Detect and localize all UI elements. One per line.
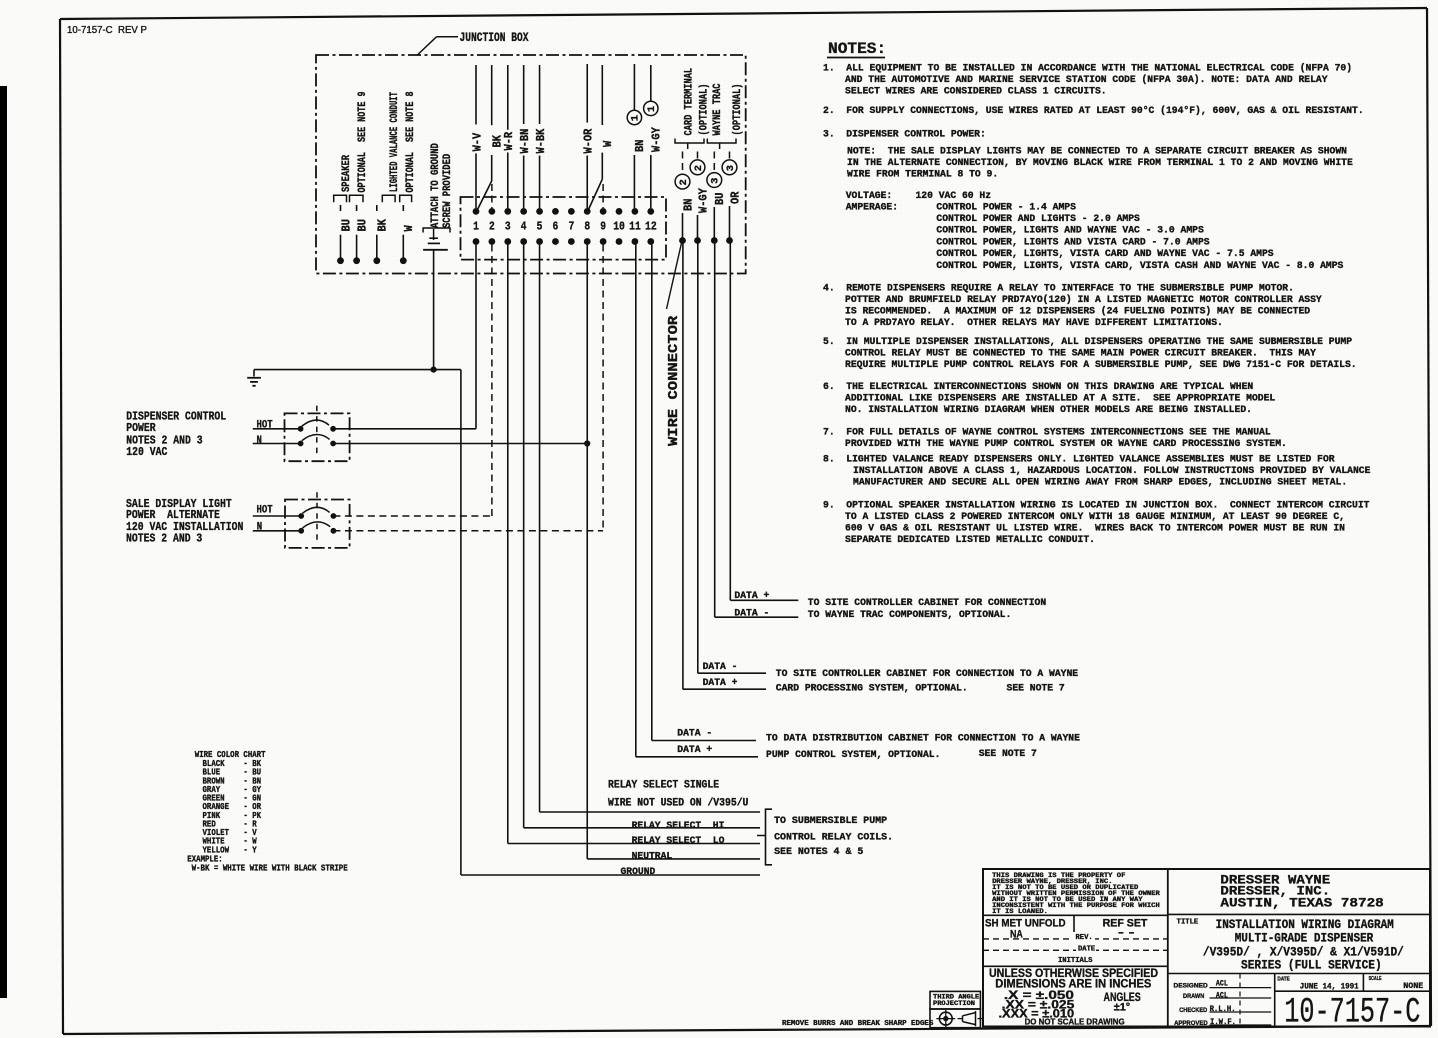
svg-text:WIRE NOT USED ON /V395/U: WIRE NOT USED ON /V395/U — [608, 798, 748, 810]
valance label OPTIONAL SEE NOTE 8 (vertical) — [405, 91, 417, 192]
terminal 11 top dot — [632, 208, 639, 215]
wire terminal 11 to pump-control DATA+ — [636, 245, 758, 757]
svg-text:DATE: DATE — [1078, 945, 1095, 953]
terminal 9 bottom dot — [600, 238, 607, 245]
svg-text:BN: BN — [633, 140, 647, 152]
text to data distribution cabinet — [766, 733, 1080, 760]
svg-text:TITLE: TITLE — [1177, 919, 1199, 927]
label RELAY SELECT LO — [632, 836, 725, 847]
svg-text:DATA +: DATA + — [703, 677, 738, 688]
svg-text:PUMP CONTROL SYSTEM, OPTIONAL.: PUMP CONTROL SYSTEM, OPTIONAL. — [766, 749, 940, 760]
circuit breaker CB1 dispenser control — [253, 406, 350, 462]
label (OPTIONAL) card terminal (vertical) — [699, 84, 711, 136]
junction dot neutral/breaker-N — [584, 440, 590, 446]
svg-text:SELECT WIRES ARE CONSIDERED CL: SELECT WIRES ARE CONSIDERED CLASS 1 CIRC… — [845, 85, 1107, 96]
svg-text:DATE: DATE — [1277, 977, 1290, 983]
svg-text:CHECKED: CHECKED — [1179, 1007, 1207, 1014]
svg-text:APPROVED: APPROVED — [1174, 1020, 1208, 1027]
svg-text:LIGHTED VALANCE CONDUIT: LIGHTED VALANCE CONDUIT — [389, 92, 401, 192]
svg-text:ATTACH TO GROUND: ATTACH TO GROUND — [430, 143, 442, 228]
svg-text:W: W — [402, 225, 416, 232]
dashed alternate wire terminal 9 to sale-display N — [333, 245, 603, 531]
svg-text:OPTIONAL SEE NOTE 9: OPTIONAL SEE NOTE 9 — [357, 91, 369, 192]
wire W-BK to terminal 5 — [534, 65, 548, 208]
ground screw symbol in junction box — [423, 228, 450, 250]
label DATA+ wayne trac — [734, 590, 769, 601]
svg-text:BU: BU — [713, 193, 727, 205]
wire W-GY pair-2 card terminal — [690, 152, 710, 244]
svg-text:2. FOR SUPPLY CONNECTIONS, US: 2. FOR SUPPLY CONNECTIONS, USE WIRES RAT… — [823, 105, 1364, 116]
terminal 1 top dot — [473, 208, 480, 215]
wire color chart — [187, 750, 348, 874]
svg-text:600 V GAS & OIL RESISTANT UL L: 600 V GAS & OIL RESISTANT UL LISTED WIRE… — [845, 522, 1345, 533]
terminal 3 top dot — [504, 208, 511, 215]
svg-text:±1°: ±1° — [1114, 1001, 1131, 1013]
svg-text:OPTIONAL SEE NOTE 8: OPTIONAL SEE NOTE 8 — [405, 91, 417, 192]
wire W-GY pair-2 to card DATA- — [698, 244, 766, 674]
svg-text:BK: BK — [376, 218, 390, 231]
lighted valance wire BK stub — [373, 195, 395, 264]
svg-text:JUNCTION BOX: JUNCTION BOX — [460, 30, 529, 45]
svg-text:ACL: ACL — [1216, 991, 1228, 1000]
ground wire down to GROUND line — [461, 370, 760, 875]
label DATA+ pump control — [677, 744, 712, 755]
terminal 10 bottom dot — [616, 238, 623, 245]
wire BU pair-3 to trac DATA- — [715, 244, 799, 618]
svg-text:INSTALLATION ABOVE A CLASS 1,: INSTALLATION ABOVE A CLASS 1, HAZARDOUS … — [853, 465, 1371, 476]
svg-text:(OPTIONAL): (OPTIONAL) — [732, 84, 744, 136]
svg-text:DRAWN: DRAWN — [1183, 993, 1205, 1000]
svg-text:AMPERAGE:: AMPERAGE: — [846, 202, 898, 213]
terminal 2 number label — [489, 220, 495, 234]
svg-text:HOT: HOT — [257, 420, 274, 432]
terminal 5 bottom dot — [536, 238, 543, 245]
svg-text:CONTROL POWER, LIGHTS, VISTA C: CONTROL POWER, LIGHTS, VISTA CARD, VISTA… — [936, 260, 1343, 271]
svg-text:TO WAYNE TRAC COMPONENTS, OPTI: TO WAYNE TRAC COMPONENTS, OPTIONAL. — [808, 609, 1011, 620]
svg-text:IS RECOMMENDED. A MAXIMUM OF: IS RECOMMENDED. A MAXIMUM OF 12 DISPENSE… — [845, 306, 1310, 317]
svg-text:8: 8 — [584, 220, 590, 234]
terminal 6 bottom dot — [552, 238, 559, 245]
svg-text:MULTI-GRADE DISPENSER: MULTI-GRADE DISPENSER — [1235, 932, 1374, 946]
svg-text:NONE: NONE — [1403, 982, 1423, 991]
svg-text:4. REMOTE DISPENSERS REQUIRE: 4. REMOTE DISPENSERS REQUIRE A RELAY TO … — [823, 283, 1294, 294]
svg-text:10-7157-C REV P: 10-7157-C REV P — [67, 24, 147, 36]
label DATA+ card system — [703, 677, 738, 688]
svg-text:NO. INSTALLATION WIRING DIAGRA: NO. INSTALLATION WIRING DIAGRAM WHEN OTH… — [845, 404, 1252, 415]
proprietary statement box — [983, 872, 1168, 915]
svg-text:2: 2 — [489, 220, 495, 234]
svg-text:TO SUBMERSIBLE PUMP: TO SUBMERSIBLE PUMP — [774, 816, 887, 827]
wire BN pair-1 to terminal 11 — [627, 64, 647, 208]
label ATTACH TO GROUND SCREW PROVIDED (vertical) — [430, 143, 454, 228]
svg-text:120 VAC: 120 VAC — [126, 445, 168, 459]
svg-text:INSTALLATION WIRING DIAGRAM: INSTALLATION WIRING DIAGRAM — [1216, 918, 1394, 932]
svg-text:CONTROL POWER AND LIGHTS - 2.0: CONTROL POWER AND LIGHTS - 2.0 AMPS — [936, 213, 1140, 224]
svg-text:DO NOT SCALE DRAWING: DO NOT SCALE DRAWING — [1025, 1017, 1125, 1027]
wire W-V to terminal 1 — [470, 65, 484, 208]
svg-text:IT IS LOANED.: IT IS LOANED. — [992, 908, 1048, 915]
svg-text:NEUTRAL: NEUTRAL — [632, 852, 673, 863]
terminal 6 number label — [553, 220, 559, 234]
terminal 1 number label — [473, 220, 479, 234]
valance label LIGHTED VALANCE CONDUIT (vertical) — [389, 92, 401, 192]
label (OPTIONAL) wayne trac (vertical) — [732, 84, 744, 136]
wire terminal 3 to RELAY SELECT LO — [508, 245, 760, 844]
alternate dashed wire BK to terminal 2 — [491, 184, 493, 208]
svg-text:SEE NOTE 7: SEE NOTE 7 — [979, 748, 1037, 759]
svg-text:OR: OR — [728, 191, 742, 204]
alternate dashed wire W to terminal 9 — [602, 184, 604, 208]
svg-text:BU: BU — [339, 219, 353, 231]
svg-text:W-BN: W-BN — [518, 129, 532, 154]
terminal 8 bottom dot — [584, 238, 591, 245]
svg-text:TO SITE CONTROLLER CABINET FOR: TO SITE CONTROLLER CABINET FOR CONNECTIO… — [808, 597, 1047, 608]
svg-text:- Y: - Y — [243, 845, 257, 855]
svg-text:TO A PRD7AYO RELAY. OTHER REL: TO A PRD7AYO RELAY. OTHER RELAYS MAY HAV… — [845, 317, 1223, 328]
svg-text:PROVIDED WITH THE WAYNE PUMP C: PROVIDED WITH THE WAYNE PUMP CONTROL SYS… — [845, 438, 1287, 449]
wire W-GY pair-1 to terminal 12 — [644, 65, 664, 208]
svg-text:BN: BN — [681, 199, 695, 211]
label WAYNE TRAC (vertical) — [712, 83, 724, 135]
terminal 2 top dot — [488, 208, 495, 215]
svg-text:N: N — [257, 522, 262, 534]
svg-text:INITIALS: INITIALS — [1058, 957, 1092, 965]
label RELAY SELECT HI — [632, 821, 725, 832]
svg-text:1. ALL EQUIPMENT TO BE INSTAL: 1. ALL EQUIPMENT TO BE INSTALLED IN ACCO… — [823, 62, 1352, 73]
terminal 3 bottom dot — [504, 238, 511, 245]
svg-text:WIRE CONNECTOR: WIRE CONNECTOR — [667, 315, 682, 446]
svg-text:IN THE ALTERNATE CONNECTION, B: IN THE ALTERNATE CONNECTION, BY MOVING B… — [847, 157, 1353, 168]
svg-text:10: 10 — [613, 220, 625, 234]
terminal 7 bottom dot — [568, 238, 575, 245]
terminal 5 top dot — [536, 208, 543, 215]
drawing number 10-7157-C — [1284, 993, 1420, 1033]
svg-text:SPEAKER: SPEAKER — [341, 155, 353, 192]
terminal 4 number label — [521, 220, 527, 234]
svg-text:REQUIRE MULTIPLE PUMP CONTROL: REQUIRE MULTIPLE PUMP CONTROL RELAYS FOR… — [845, 359, 1357, 370]
svg-text:GROUND: GROUND — [621, 867, 656, 878]
svg-text:CONTROL POWER, LIGHTS AND VIST: CONTROL POWER, LIGHTS AND VISTA CARD - 7… — [936, 237, 1209, 248]
wire W-OR to terminal 8 — [582, 64, 596, 208]
svg-text:SEE NOTES 4 & 5: SEE NOTES 4 & 5 — [774, 847, 863, 858]
text to submersible pump control relay coils — [774, 816, 893, 858]
svg-text:W-R: W-R — [502, 131, 516, 150]
svg-text:/V395D/ , X/V395D/ & X1/V591D/: /V395D/ , X/V395D/ & X1/V591D/ — [1203, 945, 1404, 959]
label DATA- card system — [703, 661, 738, 672]
company name block — [1220, 873, 1383, 911]
terminal 4 top dot — [520, 208, 527, 215]
svg-text:- -: - - — [1118, 926, 1135, 938]
remove burrs note — [782, 1020, 934, 1028]
svg-text:DATA -: DATA - — [703, 661, 738, 672]
card terminal bracket — [675, 139, 704, 150]
earth junction dot — [431, 367, 437, 373]
svg-text:SEE NOTE 7: SEE NOTE 7 — [1007, 683, 1065, 694]
label WIRE CONNECTOR (vertical) — [667, 315, 682, 446]
svg-text:4: 4 — [521, 220, 527, 234]
speaker label OPTIONAL SEE NOTE 9 (vertical) — [357, 91, 369, 192]
wire from terminal 1 to breaker HOT — [333, 245, 476, 429]
terminal 11 bottom dot — [632, 238, 639, 245]
svg-text:MANUFACTURER AND SECURE ALL OP: MANUFACTURER AND SECURE ALL OPEN WIRING … — [853, 477, 1347, 488]
junction box enclosure (dash-dot) — [316, 55, 746, 274]
circuit breaker CB2 sale display alternate — [253, 492, 350, 548]
text to site controller for wayne trac — [808, 597, 1047, 620]
terminal 7 number label — [568, 220, 574, 234]
svg-text:3: 3 — [505, 220, 511, 234]
wire terminal 12 to pump-control DATA- — [652, 245, 756, 741]
terminal 9 top dot — [600, 208, 607, 215]
svg-text:9. OPTIONAL SPEAKER INSTALLAT: 9. OPTIONAL SPEAKER INSTALLATION WIRING … — [823, 499, 1370, 510]
wire connector leader line — [667, 243, 682, 309]
svg-text:8. LIGHTED VALANCE READY DISP: 8. LIGHTED VALANCE READY DISPENSERS ONLY… — [823, 454, 1335, 465]
svg-text:11: 11 — [629, 220, 641, 234]
svg-text:3. DISPENSER CONTROL POWER:: 3. DISPENSER CONTROL POWER: — [823, 129, 986, 140]
wire terminal 5 to relay select single — [540, 245, 760, 813]
svg-text:5: 5 — [537, 220, 543, 234]
svg-text:NOTES 2 AND 3: NOTES 2 AND 3 — [126, 531, 202, 545]
earth ground symbol — [247, 370, 261, 386]
speaker wire BU stub 1 — [334, 195, 354, 264]
svg-text:6. THE ELECTRICAL INTERCONNEC: 6. THE ELECTRICAL INTERCONNECTIONS SHOWN… — [823, 381, 1253, 392]
svg-text:3: 3 — [725, 165, 737, 171]
terminal 2 bottom dot — [488, 238, 495, 245]
svg-text:REMOVE BURRS AND BREAK SHARP E: REMOVE BURRS AND BREAK SHARP EDGES — [782, 1020, 934, 1028]
svg-text:N: N — [257, 435, 262, 447]
scanner edge black bar — [0, 86, 7, 998]
svg-text:7. FOR FULL DETAILS OF WAYNE: 7. FOR FULL DETAILS OF WAYNE CONTROL SYS… — [823, 427, 1271, 438]
junction box label — [417, 30, 528, 55]
terminal 8 top dot — [584, 208, 591, 215]
svg-text:DATA +: DATA + — [677, 744, 712, 755]
terminal 12 bottom dot — [647, 238, 654, 245]
svg-text:WAYNE TRAC: WAYNE TRAC — [712, 83, 724, 135]
drawing number header text — [67, 24, 147, 36]
svg-text:VOLTAGE: 120 VAC 60 Hz: VOLTAGE: 120 VAC 60 Hz — [846, 190, 992, 201]
speaker label SPEAKER (vertical) — [341, 155, 353, 192]
notes text block — [823, 62, 1371, 545]
terminal strip TB1 (dash-dot outline) — [461, 197, 667, 260]
wire terminal 4 to RELAY SELECT HI — [524, 245, 760, 828]
svg-text:SEPARATE DEDICATED LISTED META: SEPARATE DEDICATED LISTED METALLIC CONDU… — [845, 534, 1095, 545]
svg-text:CONTROL RELAY COILS.: CONTROL RELAY COILS. — [774, 832, 893, 843]
svg-text:NOTES:: NOTES: — [828, 40, 886, 58]
svg-text:CONTROL POWER, LIGHTS, VISTA C: CONTROL POWER, LIGHTS, VISTA CARD AND WA… — [936, 248, 1273, 259]
svg-text:W-V: W-V — [470, 132, 484, 151]
terminal 11 number label — [629, 220, 641, 234]
label DATA- pump control — [677, 728, 712, 739]
wire OR pair-3 to trac DATA+ — [730, 244, 798, 601]
wire W supply to terminal 8 (with diagonal) — [589, 65, 616, 210]
svg-text:3: 3 — [710, 178, 722, 184]
svg-text:DATA -: DATA - — [677, 728, 712, 739]
terminal 12 number label — [645, 220, 657, 234]
svg-text:W: W — [601, 140, 615, 147]
svg-text:PROJECTION: PROJECTION — [933, 1000, 975, 1007]
svg-text:(OPTIONAL): (OPTIONAL) — [699, 84, 711, 136]
svg-text:12: 12 — [645, 220, 657, 234]
breaker N wire to neutral junction — [333, 443, 587, 445]
wire W-BN to terminal 4 — [518, 65, 532, 208]
svg-text:2: 2 — [693, 165, 705, 171]
projection symbol — [936, 1010, 983, 1028]
sheet metal / ref set row — [983, 915, 1168, 966]
svg-text:ADDITIONAL LIKE DISPENSERS ARE: ADDITIONAL LIKE DISPENSERS ARE INSTALLED… — [845, 393, 1275, 404]
terminal 8 number label — [584, 220, 590, 234]
terminal 10 number label — [613, 220, 625, 234]
label GROUND — [621, 867, 656, 878]
wire BU pair-3 wayne trac — [707, 152, 727, 244]
svg-text:1: 1 — [646, 106, 658, 112]
svg-text:5. IN MULTIPLE DISPENSER INST: 5. IN MULTIPLE DISPENSER INSTALLATIONS, … — [823, 336, 1352, 347]
svg-text:TO SITE CONTROLLER CABINET FOR: TO SITE CONTROLLER CABINET FOR CONNECTIO… — [776, 668, 1078, 679]
svg-text:SERIES (FULL SERVICE): SERIES (FULL SERVICE) — [1241, 958, 1382, 972]
text to site controller for card processing — [776, 668, 1078, 694]
terminal 6 top dot — [552, 208, 559, 215]
wayne trac bracket — [707, 139, 736, 150]
wire earth junction to ground symbol — [254, 369, 461, 371]
svg-text:1: 1 — [630, 115, 642, 121]
svg-text:CONTROL POWER - 1.4 AMPS: CONTROL POWER - 1.4 AMPS — [936, 202, 1076, 213]
wire terminal 8 to NEUTRAL — [587, 245, 760, 859]
svg-text:W-BK = WHITE WIRE WITH BLACK S: W-BK = WHITE WIRE WITH BLACK STRIPE — [192, 864, 349, 874]
svg-text:CONTROL POWER, LIGHTS AND WAYN: CONTROL POWER, LIGHTS AND WAYNE VAC - 3.… — [936, 225, 1204, 236]
svg-text:9: 9 — [600, 220, 606, 234]
svg-text:DATA -: DATA - — [734, 608, 769, 619]
terminal 5 number label — [537, 220, 543, 234]
label NEUTRAL — [632, 852, 673, 863]
svg-text:SH MET UNFOLD: SH MET UNFOLD — [985, 917, 1066, 929]
svg-text:2: 2 — [678, 179, 690, 185]
svg-text:RELAY SELECT HI: RELAY SELECT HI — [632, 821, 725, 832]
ground wire from screw to earth junction — [433, 250, 435, 370]
terminal 1 bottom dot — [473, 238, 480, 245]
notes heading — [827, 40, 886, 58]
svg-text:REV.: REV. — [1076, 934, 1093, 942]
label SALE DISPLAY LIGHT POWER block — [126, 497, 243, 546]
label CARD TERMINAL (vertical) — [684, 68, 696, 136]
svg-text:1: 1 — [473, 220, 479, 234]
svg-text:W-OR: W-OR — [582, 128, 596, 153]
svg-text:TO A LISTED CLASS 2 POWERED IN: TO A LISTED CLASS 2 POWERED INTERCOM ONL… — [845, 511, 1345, 522]
third angle projection box — [930, 991, 980, 1027]
svg-text:10-7157-C: 10-7157-C — [1284, 993, 1420, 1033]
wire BN pair-2 to card DATA+ — [683, 244, 766, 690]
label DISPENSER CONTROL POWER block — [126, 410, 226, 460]
svg-text:RELAY SELECT SINGLE: RELAY SELECT SINGLE — [608, 780, 719, 792]
svg-text:TO DATA DISTRIBUTION CABINET F: TO DATA DISTRIBUTION CABINET FOR CONNECT… — [766, 733, 1080, 744]
svg-text:JUNE 14, 1991: JUNE 14, 1991 — [1300, 982, 1359, 991]
wire W-R to terminal 3 — [502, 65, 516, 208]
tolerances box — [989, 967, 1158, 1027]
svg-text:SCALE: SCALE — [1369, 976, 1382, 982]
svg-text:CARD TERMINAL: CARD TERMINAL — [684, 68, 696, 136]
svg-text:DATA +: DATA + — [734, 590, 769, 601]
dashed alternate wire terminal 2 to sale-display HOT — [333, 245, 492, 517]
svg-text:BU: BU — [355, 219, 369, 231]
wire OR pair-3 wayne trac — [722, 152, 742, 244]
wire BK supply to terminal 1 (with diagonal) — [478, 65, 505, 210]
terminal 9 number label — [600, 220, 606, 234]
approval signature rows — [1174, 974, 1272, 1028]
wire BN pair-2 card terminal — [675, 152, 695, 244]
svg-text:W-BK: W-BK — [534, 128, 548, 153]
terminal 4 bottom dot — [520, 238, 527, 245]
svg-text:WIRE FROM TERMINAL 8 TO 9.: WIRE FROM TERMINAL 8 TO 9. — [847, 169, 998, 180]
terminal 10 top dot — [616, 208, 623, 215]
svg-text:CARD PROCESSING SYSTEM, OPTION: CARD PROCESSING SYSTEM, OPTIONAL. — [776, 683, 968, 694]
svg-text:AUSTIN, TEXAS 78728: AUSTIN, TEXAS 78728 — [1220, 895, 1383, 910]
svg-text:7: 7 — [568, 220, 574, 234]
svg-text:HOT: HOT — [257, 505, 274, 517]
svg-text:W-GY: W-GY — [696, 188, 710, 213]
svg-text:POTTER AND BRUMFIELD RELAY PRD: POTTER AND BRUMFIELD RELAY PRD7AYO(120) … — [845, 294, 1322, 305]
date / scale row — [1275, 974, 1430, 1027]
svg-text:W-GY: W-GY — [650, 127, 664, 152]
label RELAY SELECT SINGLE note — [608, 780, 748, 810]
terminal 3 number label — [505, 220, 511, 234]
svg-text:I.W.F.: I.W.F. — [1210, 1018, 1236, 1027]
svg-text:DESIGNED: DESIGNED — [1174, 983, 1209, 990]
label DATA- wayne trac — [734, 608, 769, 619]
svg-text:SCREW PROVIDED: SCREW PROVIDED — [442, 154, 454, 228]
speaker wire BU stub 2 — [350, 195, 370, 264]
svg-text:AND THE AUTOMOTIVE AND MARINE: AND THE AUTOMOTIVE AND MARINE SERVICE ST… — [845, 74, 1328, 85]
terminal 7 top dot — [568, 208, 575, 215]
submersible pump bracket — [757, 809, 772, 865]
lighted valance wire W stub — [400, 195, 416, 264]
title text block — [1168, 914, 1430, 973]
svg-text:6: 6 — [553, 220, 559, 234]
title block outer frame — [983, 869, 1430, 1027]
svg-text:CONTROL RELAY MUST BE CONNECTE: CONTROL RELAY MUST BE CONNECTED TO THE S… — [845, 347, 1316, 358]
svg-text:RELAY SELECT LO: RELAY SELECT LO — [632, 836, 725, 847]
svg-text:NOTE: THE SALE DISPLAY LIGHTS: NOTE: THE SALE DISPLAY LIGHTS MAY BE CON… — [847, 146, 1347, 157]
terminal 12 top dot — [647, 208, 654, 215]
